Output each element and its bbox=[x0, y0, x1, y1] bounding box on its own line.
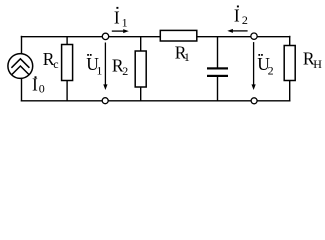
wire Rc bottom lead bbox=[66, 81, 68, 101]
node top-left terminal bbox=[102, 33, 108, 39]
svg-text:I: I bbox=[234, 5, 240, 25]
resistor RH bbox=[284, 46, 295, 81]
label U2 bbox=[257, 54, 273, 78]
svg-text:0: 0 bbox=[39, 82, 45, 96]
wire top middle segment bbox=[109, 36, 161, 38]
current source I0 bbox=[8, 54, 33, 79]
label I1 bbox=[114, 7, 128, 30]
wire RH top lead bbox=[289, 36, 291, 46]
label RH bbox=[303, 49, 322, 71]
svg-text:H: H bbox=[313, 57, 322, 71]
svg-text:1: 1 bbox=[96, 64, 102, 78]
node bottom-left terminal bbox=[102, 98, 108, 104]
wire top right-of-R1 segment bbox=[197, 36, 251, 38]
label I0 bbox=[32, 75, 45, 96]
svg-text:I: I bbox=[114, 8, 120, 28]
resistor R1 bbox=[160, 30, 197, 41]
current arrow I1 bbox=[112, 29, 129, 33]
svg-text:1: 1 bbox=[184, 50, 190, 64]
svg-text:2: 2 bbox=[122, 64, 128, 78]
wire Rc top lead bbox=[66, 37, 68, 46]
wire top left segment bbox=[21, 36, 103, 38]
wire RH bottom lead bbox=[289, 81, 291, 102]
wire capacitor top lead bbox=[217, 37, 219, 68]
wire left branch bottom lead bbox=[21, 79, 23, 102]
label R2 bbox=[112, 55, 128, 78]
svg-text:1: 1 bbox=[122, 16, 128, 30]
wire bottom left segment bbox=[21, 100, 102, 102]
svg-text:2: 2 bbox=[268, 63, 274, 77]
resistor R2 bbox=[135, 51, 146, 87]
node bottom-right terminal bbox=[251, 98, 257, 104]
svg-text:2: 2 bbox=[242, 13, 248, 27]
svg-text:c: c bbox=[53, 57, 58, 71]
wire capacitor bottom lead bbox=[217, 77, 219, 101]
label U1 bbox=[86, 54, 102, 78]
wire top rightmost segment bbox=[257, 36, 290, 38]
wire R2 bottom lead bbox=[140, 87, 142, 101]
voltage arrow U1 bbox=[103, 43, 107, 91]
resistor Rc bbox=[62, 45, 73, 81]
wire bottom right segment bbox=[257, 100, 290, 102]
label Rc bbox=[43, 49, 59, 71]
label I2 bbox=[234, 5, 248, 27]
capacitor bbox=[207, 67, 228, 77]
node top-right terminal bbox=[251, 33, 257, 39]
voltage arrow U2 bbox=[252, 42, 256, 90]
current arrow I2 bbox=[227, 29, 247, 33]
wire R2 top lead bbox=[140, 37, 142, 52]
wire bottom middle segment bbox=[108, 100, 251, 102]
wire left branch top lead bbox=[21, 36, 23, 54]
label R1 bbox=[175, 43, 190, 65]
